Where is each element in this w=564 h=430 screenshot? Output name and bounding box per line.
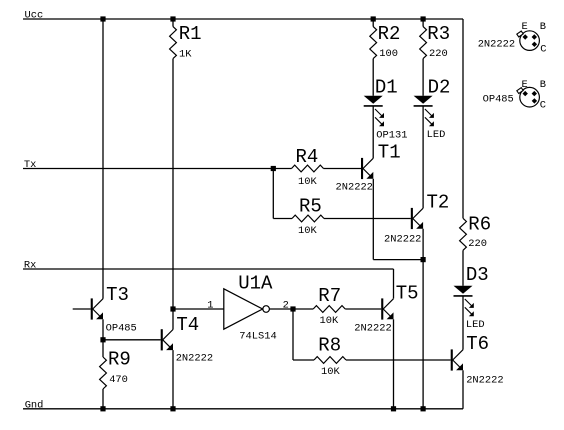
svg-text:E: E <box>522 21 528 33</box>
svg-text:10K: 10K <box>298 176 317 188</box>
wire Rx down to T5 collector <box>393 269 395 299</box>
svg-text:R7: R7 <box>318 285 341 307</box>
junction Ucc-T3 collector <box>100 16 105 21</box>
resistor R5 <box>292 196 324 237</box>
net label Ucc <box>25 10 44 22</box>
svg-text:470: 470 <box>109 374 128 386</box>
legend OP485 package <box>517 79 546 112</box>
wire T4 emitter down <box>172 350 174 409</box>
resistor R2 <box>370 23 401 60</box>
svg-text:2N2222: 2N2222 <box>466 375 503 387</box>
resistor R6 <box>460 214 492 251</box>
svg-text:B: B <box>540 79 546 91</box>
svg-text:R4: R4 <box>296 146 319 168</box>
svg-text:B: B <box>540 21 546 33</box>
svg-text:E: E <box>522 79 528 91</box>
wire to R8 <box>293 359 314 361</box>
net label Tx <box>24 159 36 171</box>
svg-text:10K: 10K <box>321 366 340 378</box>
svg-text:OP485: OP485 <box>106 322 137 334</box>
svg-text:D3: D3 <box>466 264 489 286</box>
transistor T6 <box>451 333 504 387</box>
svg-text:10K: 10K <box>298 225 317 237</box>
wire Rx rail <box>23 268 394 270</box>
transistor T4 <box>161 314 213 365</box>
svg-text:220: 220 <box>429 48 448 60</box>
svg-text:T6: T6 <box>466 333 489 355</box>
wire T3 emitter down <box>102 319 104 340</box>
wire D3 to T6 collector <box>462 296 464 350</box>
svg-text:T3: T3 <box>106 284 129 306</box>
svg-text:2N2222: 2N2222 <box>336 182 373 194</box>
wire Tx to R5 vertical <box>272 169 274 219</box>
wire U1A output to R8 vertical <box>292 309 294 360</box>
wire to R5 <box>273 218 292 220</box>
wire Ucc to T3 collector <box>102 19 104 299</box>
wire T1 emitter down <box>372 179 374 260</box>
transistor T2 <box>384 192 449 246</box>
wire Ucc rail <box>23 18 463 20</box>
svg-text:C: C <box>540 99 546 111</box>
svg-text:D1: D1 <box>375 76 398 98</box>
pin number 1 <box>207 299 213 311</box>
junction Gnd-T5 emitter <box>391 406 396 411</box>
legend label OP485 <box>483 94 514 106</box>
resistor R7 <box>313 285 345 327</box>
wire T3 emitter to T4 base <box>103 339 161 341</box>
wire R4 to T1 base <box>324 168 362 170</box>
resistor R3 <box>420 23 450 60</box>
wire Tx rail <box>23 168 292 170</box>
diode D3 <box>454 264 489 331</box>
svg-text:LED: LED <box>427 129 446 141</box>
wire Gnd rail <box>23 408 463 410</box>
svg-text:T4: T4 <box>176 314 199 336</box>
wire T3 base stub <box>73 308 91 310</box>
svg-text:2N2222: 2N2222 <box>478 38 515 50</box>
svg-text:2N2222: 2N2222 <box>176 353 213 365</box>
wire T2 emitter down <box>422 229 424 409</box>
svg-text:220: 220 <box>468 238 487 250</box>
svg-text:Tx: Tx <box>24 159 36 171</box>
resistor R1 <box>170 23 202 60</box>
net label Rx <box>24 260 36 272</box>
svg-text:R6: R6 <box>468 214 491 236</box>
svg-text:10K: 10K <box>320 315 339 327</box>
wire T1 emitter to T2 emitter <box>373 259 423 261</box>
resistor R9 <box>100 349 131 390</box>
svg-text:R5: R5 <box>299 196 322 218</box>
pin number 2 <box>283 299 289 311</box>
svg-text:T1: T1 <box>378 142 401 164</box>
svg-text:1: 1 <box>207 299 213 311</box>
resistor R8 <box>314 334 346 377</box>
wire U1A output <box>269 308 313 310</box>
junction R1-U1A input <box>170 306 175 311</box>
junction Ucc-R1 <box>170 16 175 21</box>
svg-text:D2: D2 <box>428 76 451 98</box>
legend 2N2222 package <box>517 21 547 56</box>
junction U1A output-R8 branch <box>290 306 295 311</box>
junction Gnd-T2 emitter <box>421 406 426 411</box>
junction T1-T2 emitters <box>421 257 426 262</box>
diode D2 <box>414 76 451 140</box>
svg-text:C: C <box>540 44 546 56</box>
wire R7 to T5 base <box>345 308 381 310</box>
svg-text:R3: R3 <box>427 23 450 45</box>
svg-text:100: 100 <box>379 48 398 60</box>
svg-text:Rx: Rx <box>24 260 36 272</box>
wire R2 top lead <box>372 19 374 27</box>
transistor T5 <box>354 283 418 335</box>
wire D2 to T2 collector <box>422 106 424 208</box>
svg-text:R8: R8 <box>318 334 341 356</box>
wire R3 to D2 <box>422 59 424 96</box>
junction Ucc-R3 <box>421 16 426 21</box>
transistor T1 <box>336 142 401 194</box>
svg-text:OP131: OP131 <box>376 130 407 142</box>
wire T5 emitter down <box>393 319 395 409</box>
svg-text:1K: 1K <box>179 48 192 60</box>
legend label 2N2222 <box>478 38 515 50</box>
svg-text:R9: R9 <box>108 349 131 371</box>
wire R5 to T2 base <box>324 218 411 220</box>
svg-text:OP485: OP485 <box>483 94 514 106</box>
wire R1 to T4 collector <box>172 59 174 330</box>
svg-text:T2: T2 <box>427 192 450 214</box>
op-amp U1A <box>224 273 277 343</box>
wire U1A input <box>173 308 224 310</box>
wire R8 to T6 base <box>346 359 451 361</box>
svg-text:T5: T5 <box>396 283 419 305</box>
junction Tx-R5 branch <box>271 166 276 171</box>
svg-text:2N2222: 2N2222 <box>384 234 421 246</box>
svg-text:Gnd: Gnd <box>25 400 44 412</box>
junction Ucc-R2 <box>371 16 376 21</box>
diode D1 <box>364 76 408 141</box>
wire Ucc to R6 <box>462 19 464 218</box>
svg-text:2N2222: 2N2222 <box>354 322 391 334</box>
net label Gnd <box>25 400 44 412</box>
junction Gnd-R9 <box>100 406 105 411</box>
wire R3 top lead <box>422 19 424 27</box>
wire R2 to D1 <box>372 59 374 96</box>
resistor R4 <box>292 146 324 188</box>
svg-text:R1: R1 <box>179 23 202 45</box>
wire to R9 <box>102 340 104 357</box>
junction Gnd-T4 emitter <box>170 406 175 411</box>
wire R1 top lead <box>172 19 174 27</box>
svg-text:LED: LED <box>466 319 485 331</box>
transistor T3 <box>91 284 137 334</box>
svg-text:U1A: U1A <box>238 273 273 295</box>
svg-text:Ucc: Ucc <box>25 10 44 22</box>
svg-text:74LS14: 74LS14 <box>239 331 276 343</box>
junction T3 emitter-T4 base <box>100 337 105 342</box>
wire R9 to Gnd <box>102 389 104 409</box>
wire D1 to T1 collector <box>372 106 374 158</box>
wire R6 to D3 <box>462 250 464 285</box>
wire T6 emitter down <box>462 370 464 409</box>
svg-text:R2: R2 <box>378 23 401 45</box>
